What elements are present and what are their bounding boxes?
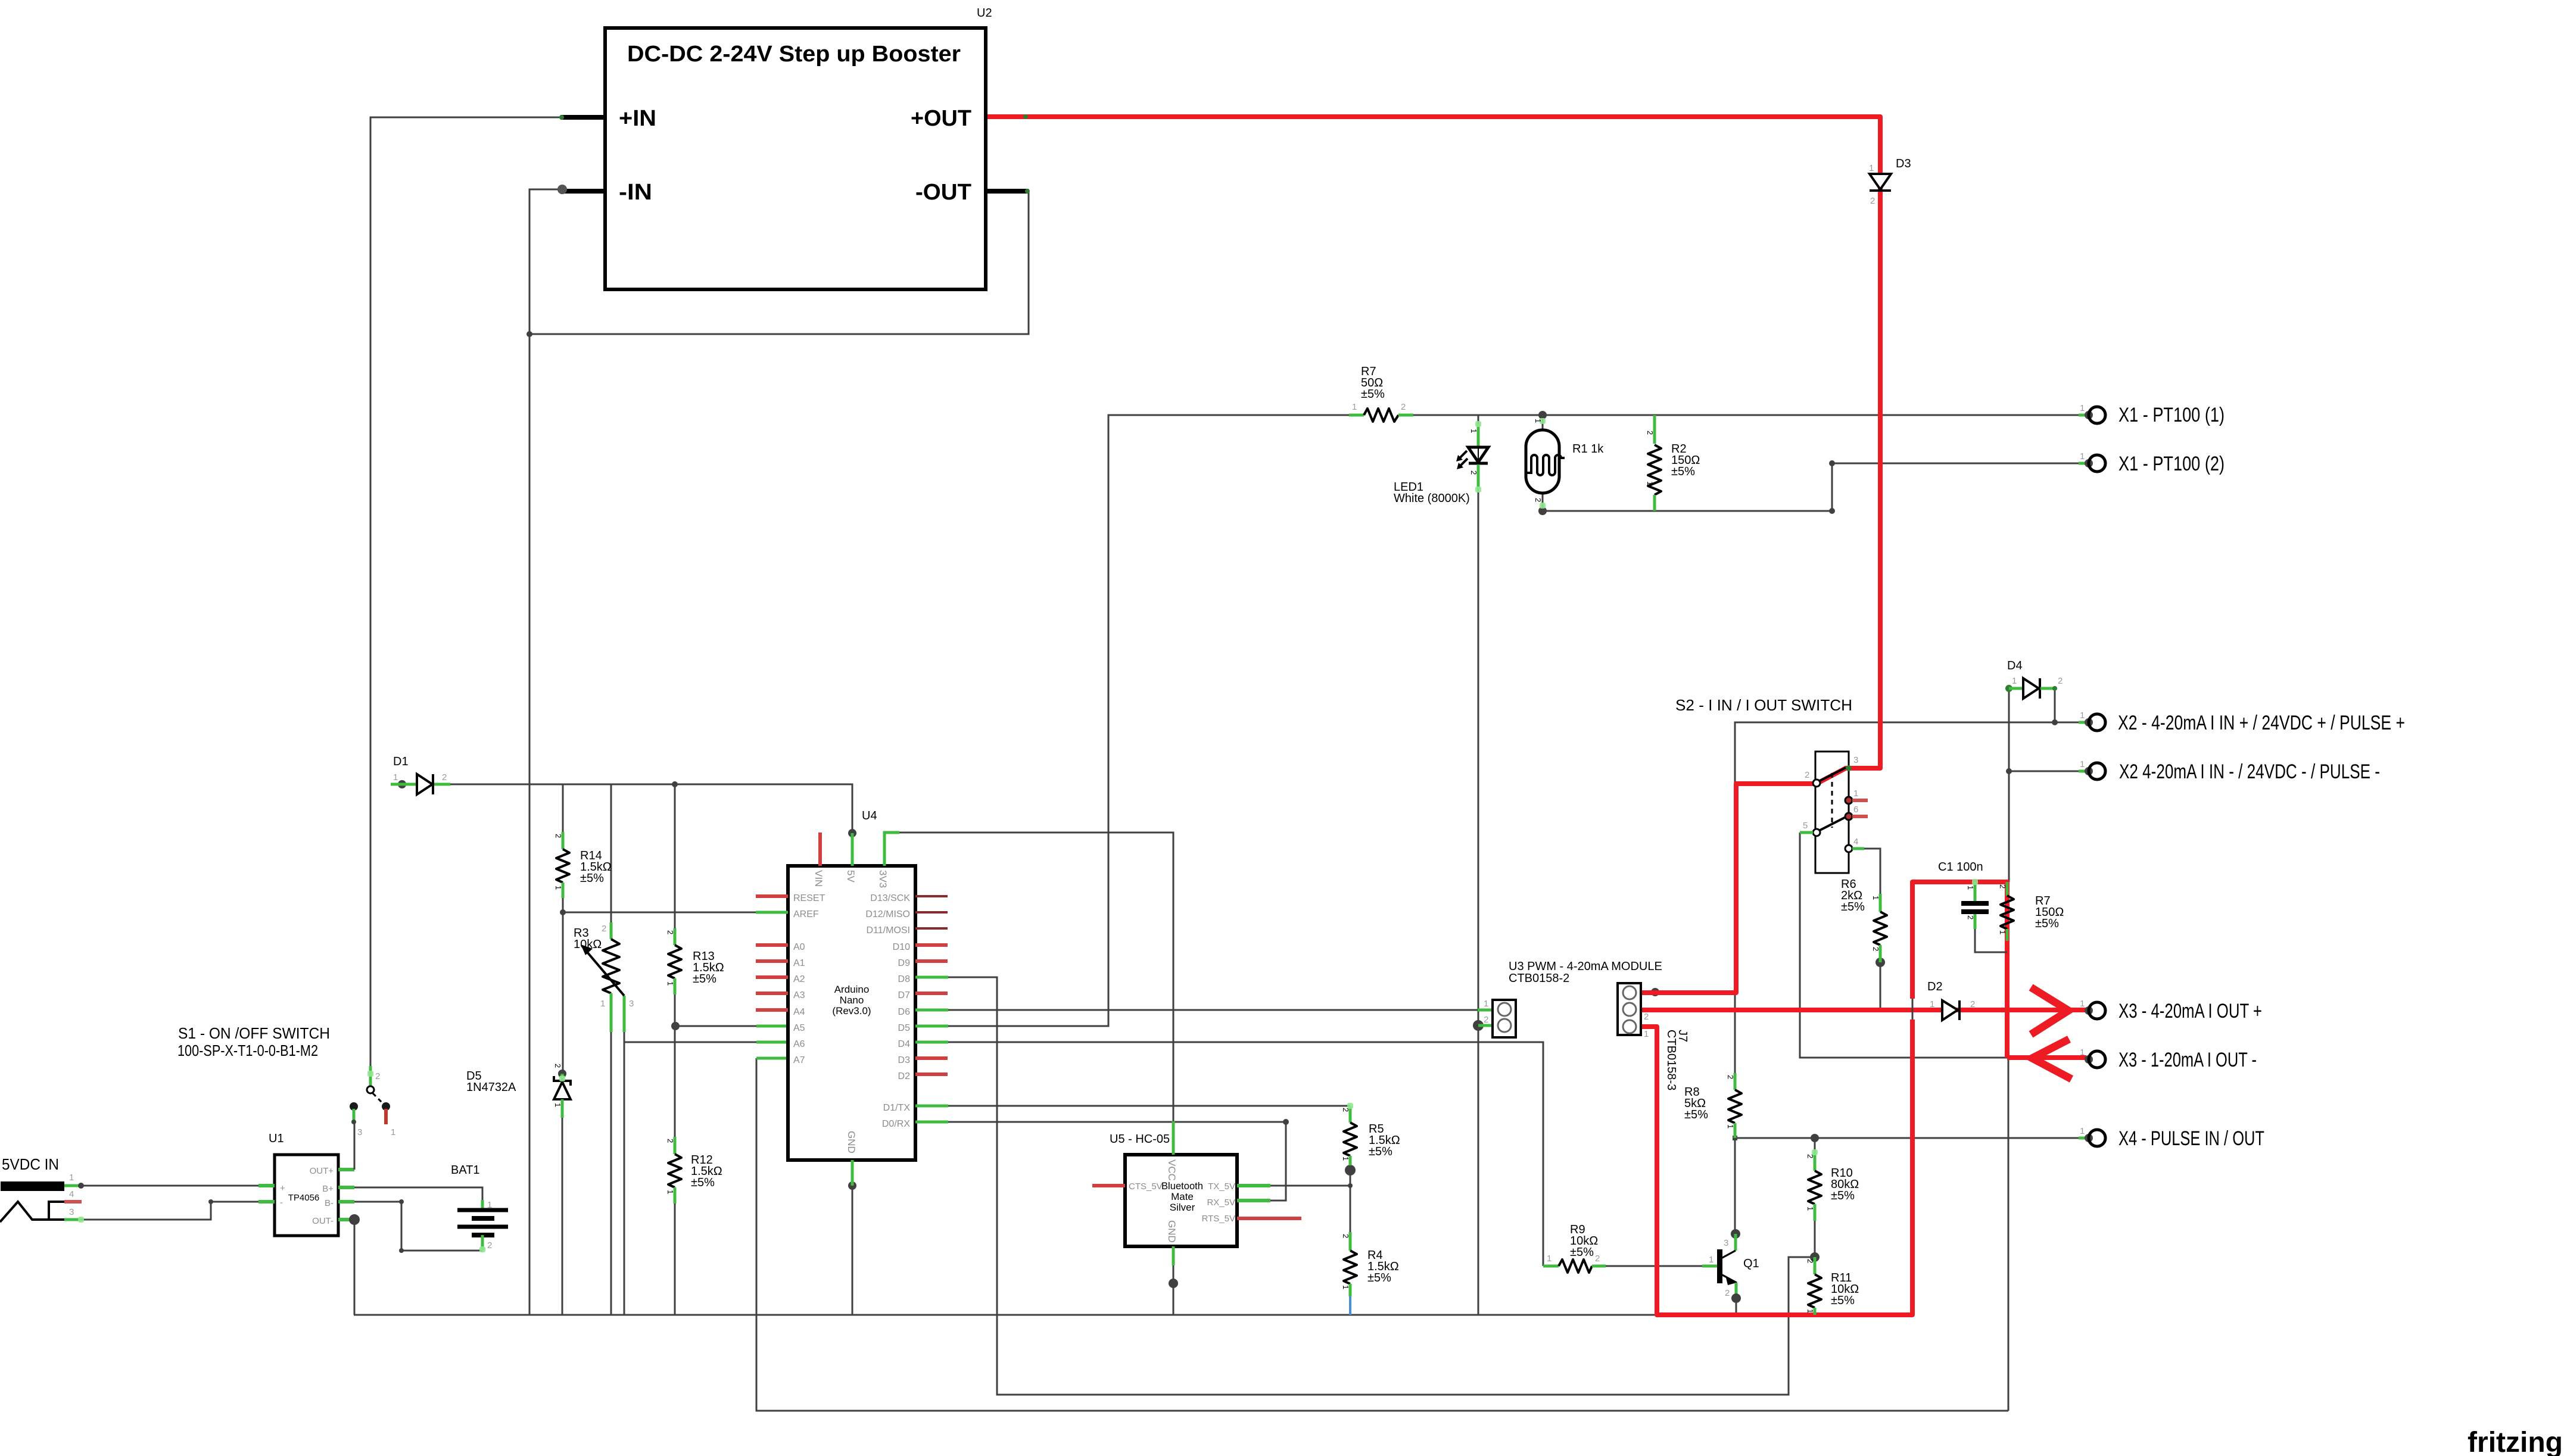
HC-05 RX green stub bbox=[1237, 1199, 1270, 1202]
svg-text:1: 1 bbox=[600, 999, 605, 1009]
transistor Q1 bbox=[1702, 1229, 1741, 1303]
svg-text:1: 1 bbox=[1726, 1124, 1735, 1128]
zener diode D5 bbox=[554, 1070, 571, 1315]
svg-text:1: 1 bbox=[1341, 1156, 1350, 1161]
svg-text:2: 2 bbox=[2058, 676, 2063, 686]
svg-text:TP4056: TP4056 bbox=[288, 1193, 320, 1203]
svg-text:VCC: VCC bbox=[1166, 1159, 1177, 1181]
svg-text:2: 2 bbox=[1595, 1254, 1600, 1264]
wire R13 to R12 bbox=[674, 1026, 676, 1137]
junction R5 bottom dot bbox=[1345, 1165, 1356, 1176]
svg-text:2: 2 bbox=[1966, 915, 1975, 919]
resistor R7 50ohm bbox=[1349, 409, 1413, 422]
svg-text:1: 1 bbox=[1869, 163, 1874, 173]
svg-text:1: 1 bbox=[1966, 886, 1975, 890]
red wire C1 rail upper bbox=[1912, 882, 2007, 1058]
wire GND bus bbox=[354, 1314, 1655, 1316]
wire jack pin1 to U1 bbox=[81, 1185, 258, 1187]
wire arduino GND to bus bbox=[852, 1186, 853, 1315]
svg-text:2: 2 bbox=[1998, 884, 2007, 888]
arduino pin names right bbox=[865, 893, 910, 1129]
terminal X1 PT100 2 bbox=[2079, 451, 2105, 472]
svg-text:1: 1 bbox=[1646, 481, 1655, 485]
module U3 connector bbox=[1478, 1000, 1516, 1037]
resistor R9 bbox=[1543, 1259, 1606, 1273]
wire R10 R11 mid bbox=[1814, 1234, 1816, 1257]
junction B- corner dot bbox=[399, 1199, 404, 1204]
booster +IN pin stub bbox=[560, 115, 605, 120]
potentiometer R3 bbox=[581, 922, 624, 1032]
wire D8 net bbox=[948, 977, 1789, 1395]
svg-text:GND: GND bbox=[846, 1131, 857, 1153]
wire D4 pin1 column bbox=[2008, 688, 2010, 882]
wire D4 to R9 bbox=[948, 1042, 1543, 1266]
svg-text:2: 2 bbox=[1646, 431, 1655, 435]
wire black link at D2 crossing bbox=[1912, 999, 1914, 1019]
svg-text:2: 2 bbox=[1341, 1108, 1350, 1112]
svg-text:CTB0158-2: CTB0158-2 bbox=[1509, 972, 1569, 985]
svg-text:OUT-: OUT- bbox=[312, 1216, 334, 1226]
svg-text:TX_5V: TX_5V bbox=[1208, 1181, 1235, 1192]
wire D1/TX green stub bbox=[915, 1105, 948, 1108]
barrel jack bbox=[0, 1181, 84, 1222]
wire D0/RX green stub bbox=[915, 1121, 948, 1124]
svg-text:1: 1 bbox=[1998, 930, 2007, 934]
svg-text:X4 - PULSE IN / OUT: X4 - PULSE IN / OUT bbox=[2119, 1127, 2264, 1150]
junction 5V pin dot bbox=[848, 829, 856, 837]
svg-text:1: 1 bbox=[1484, 999, 1488, 1009]
svg-text:2: 2 bbox=[1341, 1234, 1350, 1238]
svg-text:DC-DC 2-24V Step up Booster: DC-DC 2-24V Step up Booster bbox=[627, 42, 961, 67]
svg-text:±5%: ±5% bbox=[691, 1176, 715, 1189]
wire R1 bottom stub bbox=[1542, 493, 1544, 511]
svg-text:Q1: Q1 bbox=[1743, 1257, 1759, 1270]
svg-text:+: + bbox=[280, 1183, 285, 1193]
wire AREF green stub bbox=[756, 911, 788, 914]
arduino right red stubs D10 D9 D7 D3 D2 bbox=[915, 945, 948, 1074]
arduino pin names left bbox=[793, 893, 825, 1065]
svg-text:1N4732A: 1N4732A bbox=[466, 1081, 516, 1094]
svg-text:1: 1 bbox=[391, 1127, 395, 1137]
junction jack corner dot bbox=[208, 1199, 213, 1204]
svg-text:2: 2 bbox=[602, 924, 606, 934]
svg-text:10kΩ: 10kΩ bbox=[574, 938, 602, 951]
red wire J7 pin1 to red bus up to C1 rail lower bbox=[1637, 1019, 1912, 1315]
wire 3V3 to HC-05 VCC bbox=[899, 833, 1173, 1121]
svg-text:3: 3 bbox=[69, 1207, 74, 1217]
svg-text:U4: U4 bbox=[862, 809, 877, 822]
arduino 5V green bbox=[851, 833, 854, 866]
wire R3 pin3 to A6 and GND bus bbox=[624, 1032, 625, 1315]
wire D0/RX to HC-05 RX bbox=[948, 1122, 1286, 1201]
junction R10 R11 dot bbox=[1810, 1252, 1820, 1262]
svg-text:1: 1 bbox=[393, 772, 398, 782]
terminal X4 bbox=[2079, 1126, 2105, 1146]
svg-text:3: 3 bbox=[1853, 755, 1858, 765]
junction X4 at R8 bbox=[1733, 1136, 1737, 1140]
junction arduino GND dot bbox=[848, 1181, 856, 1190]
svg-text:1: 1 bbox=[554, 886, 563, 890]
arduino GND green bbox=[851, 1160, 854, 1186]
wire OUT+ to S1 pin3 bbox=[354, 1122, 356, 1170]
HC-05 RTS red stub bbox=[1237, 1217, 1301, 1220]
svg-text:D8: D8 bbox=[898, 974, 911, 984]
svg-text:1: 1 bbox=[553, 1103, 562, 1107]
svg-text:A0: A0 bbox=[793, 942, 805, 952]
svg-text:+OUT: +OUT bbox=[911, 106, 971, 131]
junction -IN corner dot bbox=[526, 331, 532, 337]
svg-text:4: 4 bbox=[69, 1189, 74, 1199]
svg-text:5: 5 bbox=[1803, 821, 1808, 831]
svg-text:A7: A7 bbox=[793, 1055, 805, 1065]
svg-text:1: 1 bbox=[69, 1173, 74, 1183]
booster +OUT pin tip bbox=[1023, 114, 1028, 119]
svg-text:2: 2 bbox=[487, 1240, 492, 1251]
charger U1 TP4056 box bbox=[275, 1155, 338, 1236]
svg-text:2: 2 bbox=[1644, 1012, 1649, 1022]
svg-text:2: 2 bbox=[666, 930, 675, 934]
wire B- to BAT1 bottom bbox=[354, 1202, 482, 1251]
wire X3- vertical to A7 bus bbox=[2008, 1058, 2010, 1411]
svg-text:Mate: Mate bbox=[1171, 1191, 1194, 1202]
svg-text:1: 1 bbox=[1806, 1206, 1815, 1211]
svg-text:±5%: ±5% bbox=[580, 872, 604, 885]
svg-text:A1: A1 bbox=[793, 958, 805, 968]
svg-text:±5%: ±5% bbox=[1361, 388, 1385, 401]
diode D1 bbox=[391, 774, 450, 794]
svg-text:2: 2 bbox=[1484, 1015, 1488, 1025]
svg-text:6: 6 bbox=[1853, 805, 1858, 815]
HC-05 GND green bbox=[1172, 1246, 1175, 1265]
junction R1 top dot bbox=[1538, 411, 1547, 419]
LED LED1 bbox=[1456, 424, 1488, 490]
switch S2 bbox=[1800, 752, 1868, 873]
wire S2 pin4 to R6 bbox=[1864, 849, 1880, 894]
connector J7 bbox=[1618, 983, 1641, 1035]
wire LED1 down to U3 pin2 and GND bus bbox=[1478, 490, 1479, 1315]
svg-text:2: 2 bbox=[442, 772, 447, 782]
svg-text:U1: U1 bbox=[269, 1132, 284, 1145]
wire R14 to AREF bbox=[562, 898, 564, 912]
svg-text:±5%: ±5% bbox=[1841, 900, 1865, 913]
svg-text:±5%: ±5% bbox=[1671, 465, 1695, 478]
svg-text:D6: D6 bbox=[898, 1007, 911, 1017]
svg-text:+IN: +IN bbox=[619, 106, 656, 131]
svg-text:OUT+: OUT+ bbox=[310, 1166, 334, 1176]
svg-text:1: 1 bbox=[1352, 402, 1357, 412]
diode D3 bbox=[1870, 174, 1891, 191]
green pin tips bbox=[78, 418, 1978, 1252]
junction D0/RX corner dot bbox=[1283, 1119, 1289, 1125]
svg-text:X3 - 1-20mA I OUT -: X3 - 1-20mA I OUT - bbox=[2119, 1049, 2257, 1071]
svg-text:D7: D7 bbox=[898, 990, 911, 1000]
svg-text:D4: D4 bbox=[898, 1039, 911, 1049]
wire S2 pin5 to X3- bbox=[1800, 833, 2007, 1058]
arduino right dark red stubs D13 D12 D11 bbox=[915, 896, 948, 928]
svg-text:2: 2 bbox=[666, 1139, 675, 1143]
wire A7 green stub bbox=[756, 1057, 788, 1060]
wire D4 pin2 drop bbox=[2054, 688, 2056, 722]
svg-text:D10: D10 bbox=[893, 942, 910, 952]
svg-text:2: 2 bbox=[1534, 498, 1543, 502]
svg-text:A4: A4 bbox=[793, 1007, 805, 1017]
diode D2 bbox=[1942, 1000, 1959, 1020]
svg-text:1: 1 bbox=[2080, 710, 2085, 721]
svg-text:X2 - 4-20mA I IN + / 24VDC + /: X2 - 4-20mA I IN + / 24VDC + / PULSE + bbox=[2118, 712, 2405, 734]
wire -IN net bbox=[529, 189, 562, 1315]
svg-text:5V: 5V bbox=[845, 870, 856, 883]
arduino left red stubs RESET A0-A4 bbox=[756, 896, 788, 1010]
wire R13 feed bbox=[674, 784, 676, 928]
wire A6 bbox=[624, 1042, 756, 1043]
red wire X3- to terminal bbox=[2007, 1055, 2086, 1060]
booster -IN pin stub bbox=[562, 189, 605, 194]
booster +IN pin tip bbox=[559, 115, 564, 120]
resistor R8 bbox=[1728, 1073, 1741, 1138]
wire R14 feed bbox=[562, 784, 564, 832]
svg-text:1: 1 bbox=[2080, 1126, 2085, 1136]
svg-text:2: 2 bbox=[1726, 1075, 1735, 1079]
svg-text:X3 - 4-20mA I OUT +: X3 - 4-20mA I OUT + bbox=[2119, 1000, 2262, 1022]
svg-text:Bluetooth: Bluetooth bbox=[1161, 1180, 1203, 1192]
svg-text:2: 2 bbox=[1725, 1288, 1730, 1298]
junction HC-05 GND dot bbox=[1169, 1279, 1178, 1288]
svg-text:±5%: ±5% bbox=[1570, 1246, 1594, 1259]
HC-05 TX green stub bbox=[1237, 1184, 1270, 1187]
svg-text:A3: A3 bbox=[793, 990, 805, 1000]
svg-text:1: 1 bbox=[1469, 429, 1478, 433]
svg-text:2: 2 bbox=[1970, 999, 1975, 1009]
junction A5 dot bbox=[671, 1022, 680, 1030]
HC-05 VCC green bbox=[1172, 1121, 1175, 1155]
svg-text:±5%: ±5% bbox=[693, 972, 716, 986]
arrow into X3- bbox=[2032, 1039, 2071, 1079]
resistor R6 bbox=[1874, 894, 1887, 962]
svg-text:2: 2 bbox=[1806, 1259, 1815, 1263]
wire R9 to Q1 base bbox=[1606, 1265, 1702, 1267]
wire R4 bottom blue bbox=[1349, 1296, 1351, 1315]
capacitor C1 bbox=[1961, 882, 2007, 952]
wire top rail to X1-1 bbox=[1478, 414, 2083, 416]
junction AREF dot bbox=[560, 909, 566, 915]
svg-text:D5: D5 bbox=[898, 1023, 911, 1033]
HC-05 CTS red stub bbox=[1092, 1184, 1125, 1187]
svg-text:1: 1 bbox=[1534, 419, 1543, 423]
wire R7 50 to LED1 bbox=[1413, 415, 1478, 424]
svg-text:4: 4 bbox=[1853, 837, 1858, 847]
wire -OUT return bbox=[529, 191, 1029, 334]
wire 5V rail from D1 bbox=[402, 784, 852, 833]
arduino 3V3 green bbox=[884, 833, 899, 866]
wire bottom rail to X1-2 bbox=[1543, 463, 2083, 511]
junction D1 output dot bbox=[398, 780, 406, 788]
terminal X2 plus bbox=[2079, 710, 2105, 731]
wire D4 green stub bbox=[915, 1041, 948, 1044]
wire R8 to Q1 collector bbox=[1734, 1138, 1736, 1234]
svg-text:D2: D2 bbox=[898, 1071, 911, 1081]
wire A6 green stub bbox=[756, 1041, 788, 1044]
wire X4 line bbox=[1735, 1137, 2083, 1139]
svg-text:B-: B- bbox=[325, 1198, 334, 1208]
svg-text:D1: D1 bbox=[393, 755, 409, 768]
svg-text:1: 1 bbox=[487, 1200, 492, 1210]
svg-text:±5%: ±5% bbox=[1831, 1189, 1855, 1202]
junction X2- tee dot bbox=[2006, 768, 2012, 774]
junction OUT- dot bbox=[349, 1214, 360, 1225]
svg-text:S2 - I IN / I OUT SWITCH: S2 - I IN / I OUT SWITCH bbox=[1675, 696, 1852, 714]
svg-text:R1 1k: R1 1k bbox=[1572, 442, 1604, 456]
booster -OUT pin tip bbox=[1025, 189, 1030, 194]
svg-text:1: 1 bbox=[1547, 1254, 1552, 1264]
junction -IN dot bbox=[557, 185, 567, 194]
HC-05 U5 box bbox=[1125, 1155, 1237, 1246]
svg-text:C1 100n: C1 100n bbox=[1938, 860, 1983, 874]
svg-text:2: 2 bbox=[375, 1071, 380, 1081]
svg-text:Nano: Nano bbox=[840, 994, 864, 1006]
wire A5 green stub bbox=[756, 1025, 788, 1028]
svg-text:Silver: Silver bbox=[1170, 1202, 1195, 1213]
wire AREF bbox=[563, 912, 756, 913]
svg-text:2: 2 bbox=[553, 1064, 562, 1068]
resistor R4 bbox=[1344, 1232, 1357, 1296]
terminal X3 minus bbox=[2080, 1047, 2105, 1068]
svg-text:5VDC IN: 5VDC IN bbox=[2, 1155, 59, 1173]
svg-text:D3: D3 bbox=[1896, 157, 1911, 170]
svg-text:A5: A5 bbox=[793, 1023, 805, 1033]
svg-text:3V3: 3V3 bbox=[877, 870, 889, 888]
wire R12 to GND bus bbox=[674, 1204, 676, 1315]
svg-text:U5 - HC-05: U5 - HC-05 bbox=[1110, 1133, 1170, 1146]
svg-text:1: 1 bbox=[1871, 896, 1880, 900]
svg-text:1: 1 bbox=[1806, 1309, 1815, 1313]
svg-text:VIN: VIN bbox=[813, 870, 824, 887]
svg-text:1: 1 bbox=[1341, 1285, 1350, 1289]
svg-text:RTS_5V: RTS_5V bbox=[1202, 1214, 1235, 1224]
resistor R13 bbox=[668, 928, 681, 994]
svg-text:1: 1 bbox=[2080, 999, 2085, 1009]
svg-text:1: 1 bbox=[1644, 1029, 1649, 1039]
svg-text:±5%: ±5% bbox=[1684, 1108, 1708, 1121]
wire J7 pin3 tee bbox=[1655, 992, 1735, 994]
svg-text:B+: B+ bbox=[322, 1184, 334, 1194]
terminal X1 PT100 1 bbox=[2079, 403, 2105, 423]
svg-text:-IN: -IN bbox=[619, 180, 652, 205]
svg-text:RX_5V: RX_5V bbox=[1207, 1198, 1235, 1208]
svg-text:100-SP-X-T1-0-0-B1-M2: 100-SP-X-T1-0-0-B1-M2 bbox=[177, 1042, 318, 1059]
wire R1 top stub bbox=[1542, 415, 1544, 430]
resistor R2 bbox=[1648, 415, 1661, 511]
booster -OUT pin stub bbox=[986, 189, 1029, 194]
wire D8 green stub bbox=[915, 976, 948, 979]
svg-text:CTB0158-3: CTB0158-3 bbox=[1665, 1030, 1678, 1090]
svg-text:GND: GND bbox=[1166, 1220, 1177, 1243]
wire R3 pin1 to GND bus bbox=[610, 1032, 612, 1315]
svg-text:D1/TX: D1/TX bbox=[883, 1103, 911, 1113]
wire D6 green stub bbox=[915, 1009, 948, 1012]
junction TX tee dot bbox=[1348, 1183, 1353, 1188]
svg-text:2: 2 bbox=[1805, 770, 1809, 780]
wire B+ to BAT1 bbox=[354, 1187, 482, 1200]
svg-text:1: 1 bbox=[666, 1190, 675, 1194]
RTD R1 bbox=[1526, 430, 1565, 493]
svg-text:AREF: AREF bbox=[793, 909, 819, 919]
junction bottom rail corner dots bbox=[1829, 508, 1835, 514]
svg-text:BAT1: BAT1 bbox=[451, 1164, 480, 1177]
svg-text:2: 2 bbox=[554, 834, 563, 838]
svg-text:(Rev3.0): (Rev3.0) bbox=[832, 1005, 871, 1017]
wire D5 to R7 bbox=[948, 415, 1349, 1026]
resistor R11 bbox=[1808, 1257, 1821, 1315]
arduino green pin stubs right bbox=[915, 977, 948, 1122]
red wire +OUT to S2 to J7 pin3 bbox=[987, 117, 1880, 993]
wire R10R11 junction to D8 bus bbox=[1789, 1257, 1815, 1395]
junction J7 pin3 dot bbox=[1651, 988, 1659, 996]
arduino U4 box bbox=[788, 866, 915, 1160]
wire D1/TX to R5 bbox=[948, 1105, 1350, 1107]
svg-text:D11/MOSI: D11/MOSI bbox=[867, 925, 911, 936]
svg-text:D9: D9 bbox=[898, 958, 911, 968]
svg-text:2: 2 bbox=[1806, 1154, 1815, 1158]
svg-text:1: 1 bbox=[2080, 451, 2085, 462]
svg-text:X1 - PT100 (1): X1 - PT100 (1) bbox=[2119, 404, 2225, 426]
svg-text:2: 2 bbox=[1401, 402, 1406, 412]
diode D4 bbox=[2005, 678, 2057, 699]
svg-text:U2: U2 bbox=[977, 7, 992, 20]
wire R3 feed bbox=[610, 784, 612, 922]
svg-text:1: 1 bbox=[1930, 999, 1934, 1009]
junction R1 bottom dot bbox=[1538, 507, 1547, 515]
svg-text:fritzing: fritzing bbox=[2468, 1427, 2563, 1456]
switch S1 bbox=[350, 1066, 390, 1124]
wire R5 bottom to R4 top bbox=[1350, 1165, 1351, 1232]
resistor R7 150ohm bbox=[2001, 882, 2014, 941]
svg-text:White (8000K): White (8000K) bbox=[1394, 492, 1470, 505]
svg-text:S1 - ON /OFF SWITCH: S1 - ON /OFF SWITCH bbox=[178, 1024, 330, 1042]
resistor R5 bbox=[1344, 1106, 1357, 1165]
resistor R12 bbox=[668, 1137, 681, 1204]
resistor R10 bbox=[1808, 1134, 1821, 1234]
junction U3 pin2 dot bbox=[1473, 1020, 1484, 1031]
wire jack pin3 to U1 minus bbox=[81, 1202, 258, 1220]
wire A5 bbox=[675, 1025, 756, 1027]
svg-text:1: 1 bbox=[1709, 1255, 1714, 1265]
wire +IN net bbox=[370, 117, 560, 1090]
wire X2+ line bbox=[1735, 722, 2083, 785]
svg-text:2: 2 bbox=[1871, 947, 1880, 951]
svg-text:1: 1 bbox=[1853, 788, 1858, 799]
arrow into X3+ bbox=[2031, 987, 2068, 1034]
svg-text:U3 PWM - 4-20mA MODULE: U3 PWM - 4-20mA MODULE bbox=[1509, 960, 1662, 973]
svg-text:RESET: RESET bbox=[793, 893, 825, 903]
wire R6 bottom to X3+ bbox=[1880, 962, 1881, 1010]
svg-text:D13/SCK: D13/SCK bbox=[870, 893, 910, 903]
junction -IN dot overlay bbox=[557, 185, 567, 194]
svg-text:-: - bbox=[280, 1198, 283, 1208]
svg-text:D0/RX: D0/RX bbox=[882, 1119, 910, 1129]
wire OUT- down to GND bus bbox=[354, 1220, 356, 1315]
svg-text:3: 3 bbox=[629, 999, 634, 1009]
svg-text:1: 1 bbox=[2080, 403, 2085, 413]
svg-text:1: 1 bbox=[2080, 759, 2085, 769]
svg-text:A2: A2 bbox=[793, 974, 805, 984]
svg-text:2: 2 bbox=[1870, 196, 1875, 206]
wire HC-05 GND to bus bbox=[1173, 1265, 1174, 1315]
svg-text:2: 2 bbox=[1469, 470, 1478, 475]
wire R13 to A5 bbox=[674, 994, 676, 1026]
svg-text:D2: D2 bbox=[1927, 980, 1943, 993]
pin number digits rotated bbox=[553, 419, 2007, 1313]
resistor R14 bbox=[556, 832, 569, 898]
